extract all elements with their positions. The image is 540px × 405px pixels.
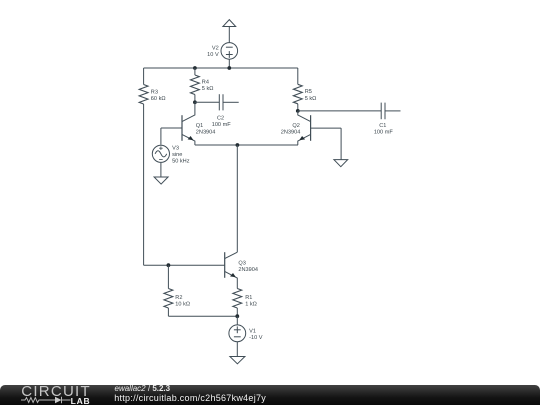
svg-text:100 mF: 100 mF [374, 130, 394, 136]
wire [340, 128, 342, 160]
svg-text:V1: V1 [249, 329, 256, 335]
label R2 10 kΩ [175, 295, 190, 307]
logo LAB text [71, 396, 91, 405]
svg-text:R1: R1 [245, 295, 252, 301]
label R1 1 kΩ [245, 295, 257, 307]
svg-text:Q2: Q2 [292, 123, 299, 129]
logo resistor-diode squiggle [21, 396, 73, 405]
label C2 100 mF [212, 116, 232, 129]
wire bottom rail [168, 315, 237, 317]
resistor R4 [191, 68, 200, 102]
resistor R1 [233, 289, 242, 317]
svg-text:Q1: Q1 [196, 123, 203, 129]
node junction [193, 100, 197, 104]
svg-text:sine: sine [172, 151, 182, 158]
svg-text:V2: V2 [212, 46, 219, 52]
svg-text:C1: C1 [379, 123, 386, 129]
svg-text:R4: R4 [202, 79, 209, 85]
node junction [296, 109, 300, 113]
svg-text:C2: C2 [217, 116, 224, 122]
label R3 60 kΩ [151, 89, 166, 102]
ground [154, 177, 168, 184]
label R5 5 kΩ [305, 89, 317, 102]
wire Q3 base [144, 264, 225, 266]
svg-text:Q3: Q3 [238, 261, 245, 267]
transistor Q3 [225, 252, 238, 288]
footer bar [0, 385, 540, 405]
node junction [236, 143, 240, 147]
svg-text:100 mF: 100 mF [212, 122, 232, 128]
svg-text:2N3904: 2N3904 [281, 129, 301, 135]
label V1 -10 V [249, 329, 263, 341]
svg-text:50 kHz: 50 kHz [172, 158, 190, 165]
label Q1 2N3904 [196, 123, 216, 135]
node junction [193, 66, 197, 70]
svg-text:2N3904: 2N3904 [196, 129, 216, 135]
svg-text:R2: R2 [175, 295, 182, 301]
capacitor C1 [381, 103, 400, 120]
wire [236, 342, 238, 357]
footer title line [115, 384, 171, 393]
label C1 100 mF [374, 123, 394, 136]
wire [236, 316, 238, 325]
wire top rail [144, 67, 298, 69]
resistor R5 [293, 68, 302, 111]
transistor Q1 [161, 102, 195, 145]
node junction [227, 66, 231, 70]
svg-text:5 kΩ: 5 kΩ [305, 95, 317, 102]
voltage source V1 [229, 325, 246, 342]
label R4 5 kΩ [202, 79, 214, 92]
ground [334, 160, 348, 167]
wire left rail [143, 120, 145, 265]
resistor R2 [164, 265, 173, 316]
footer url line [114, 393, 266, 403]
svg-text:V3: V3 [172, 145, 179, 151]
wire emitter rail [195, 144, 298, 146]
svg-text:R3: R3 [151, 89, 158, 95]
svg-text:60 kΩ: 60 kΩ [151, 95, 166, 102]
svg-text:2N3904: 2N3904 [238, 267, 258, 273]
wire [228, 59, 230, 68]
power flag VCC [223, 20, 236, 27]
logo CIRCUIT text [21, 383, 91, 400]
capacitor C2 [219, 94, 238, 110]
svg-text:1 kΩ: 1 kΩ [245, 300, 257, 307]
svg-text:R5: R5 [305, 89, 312, 95]
voltage source V2 [221, 43, 238, 60]
svg-text:-10 V: -10 V [249, 335, 263, 341]
ground [230, 357, 245, 364]
node junction [235, 314, 239, 318]
wire [160, 163, 162, 177]
transistor Q2 [298, 111, 341, 145]
label V3 sine 50 kHz [172, 145, 190, 164]
svg-text:10 V: 10 V [207, 52, 219, 58]
wire [228, 27, 230, 43]
svg-text:5 kΩ: 5 kΩ [202, 85, 214, 92]
label V2 10 V [207, 46, 219, 59]
resistor R3 [139, 68, 148, 120]
node junction [167, 263, 171, 267]
label Q2 2N3904 [281, 123, 301, 135]
voltage source V3 sine [152, 145, 169, 162]
label Q3 2N3904 [238, 261, 258, 273]
wire [160, 128, 162, 145]
wire [195, 101, 219, 103]
svg-text:10 kΩ: 10 kΩ [175, 300, 190, 307]
wire Q3 collector vertical [236, 145, 238, 252]
wire [298, 110, 381, 112]
